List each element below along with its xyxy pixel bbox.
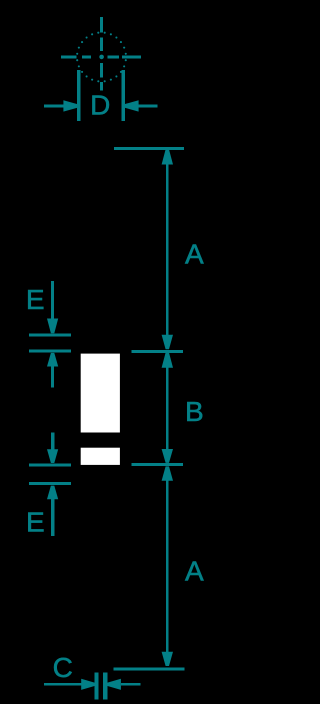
B up arrowhead	[162, 353, 173, 368]
top view horizontal centerline (dashed)	[61, 56, 141, 59]
D right arrowhead	[125, 100, 139, 111]
lower A down arrowhead	[162, 652, 173, 666]
upper A dimension line stem	[166, 164, 169, 336]
E lower down-arrow stem	[51, 433, 54, 451]
C left leader line	[44, 683, 82, 686]
C tick 1	[95, 672, 99, 699]
svg-text:A: A	[185, 239, 204, 270]
C tick 2	[103, 672, 107, 699]
E upper up-arrow stem	[51, 366, 54, 388]
lower A dimension line stem	[166, 480, 169, 653]
D left extension line	[77, 70, 81, 121]
A bottom tick	[114, 668, 185, 671]
D left arrowhead	[63, 100, 77, 111]
E lower down arrowhead	[47, 449, 58, 463]
D right extension line	[122, 70, 126, 121]
svg-text:D: D	[90, 89, 110, 120]
cathode band (white)	[81, 448, 120, 465]
top view vertical centerline (dashed)	[100, 17, 103, 91]
D right leader line	[138, 105, 158, 108]
centerline dot	[99, 55, 104, 60]
B top tick	[132, 350, 184, 353]
C right leader line	[121, 683, 141, 686]
B dimension line stem	[166, 367, 169, 450]
E upper up arrowhead	[47, 353, 58, 367]
svg-text:C: C	[53, 652, 73, 683]
lower A up arrowhead	[162, 466, 173, 480]
upper A up arrowhead	[162, 149, 173, 164]
D left leader line	[44, 105, 64, 108]
A top tick	[114, 147, 184, 150]
svg-text:A: A	[185, 556, 204, 587]
B down arrowhead	[162, 449, 173, 463]
svg-text:E: E	[26, 284, 45, 315]
E lower up arrowhead	[47, 486, 58, 500]
C right arrowhead	[108, 679, 121, 690]
E upper tick 2	[29, 350, 71, 353]
E lower tick 2	[29, 482, 71, 485]
dotted circle (lead outline, top view)	[76, 32, 127, 83]
E lower up-arrow stem	[51, 498, 54, 536]
E upper tick 1	[29, 333, 71, 336]
C left arrowhead	[81, 679, 94, 690]
E upper down arrowhead	[47, 319, 58, 334]
svg-text:B: B	[185, 396, 204, 427]
B bottom tick	[132, 463, 184, 466]
svg-text:E: E	[26, 507, 45, 538]
body (side view, white)	[81, 354, 120, 433]
E upper down-arrow stem	[51, 281, 54, 319]
E lower tick 1	[29, 463, 71, 466]
upper A down arrowhead	[162, 335, 173, 349]
